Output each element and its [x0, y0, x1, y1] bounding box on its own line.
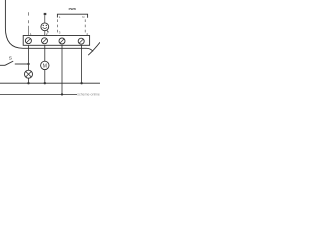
wire terminal 4 down to bus N	[81, 45, 83, 83]
switch S blade	[5, 61, 13, 65]
motor M1	[41, 61, 49, 69]
enclosure body outline left	[5, 0, 93, 51]
terminal 2	[42, 38, 48, 44]
node switch junction	[27, 63, 29, 65]
switch S right lead	[15, 63, 29, 65]
sensor bulb U1	[41, 23, 49, 33]
node terminal4-bus junction	[80, 82, 82, 84]
wire U1 to terminal 2	[44, 31, 46, 36]
wire from icon to U1	[44, 15, 46, 23]
svg-text:S: S	[9, 56, 12, 62]
svg-text:3: 3	[59, 30, 61, 34]
supply bracket	[57, 14, 87, 18]
wire terminal 2 down	[44, 45, 46, 61]
terminal block X1	[23, 36, 89, 46]
wire motor to bus N	[44, 70, 46, 84]
node terminal3-bottom junction	[61, 93, 63, 95]
bus N wire	[0, 82, 100, 84]
terminal 4	[78, 38, 84, 44]
node lamp-bus junction	[27, 82, 29, 84]
svg-text:N: N	[82, 15, 84, 19]
node motor-bus junction	[44, 82, 46, 84]
wire riser to terminal 1 (dashed)	[28, 12, 30, 35]
wire riser L to terminal 3 (dashed)	[57, 19, 59, 35]
wire terminal 3 down to bottom bus	[61, 45, 63, 94]
sensor icon above U1	[44, 13, 47, 15]
enclosure body outline right corner arc	[88, 42, 100, 55]
terminal 3	[59, 38, 65, 44]
terminal 1	[25, 38, 31, 44]
bus L bottom wire	[0, 93, 77, 95]
lamp E1	[25, 70, 33, 78]
svg-text:L: L	[59, 15, 61, 19]
switch S left lead	[0, 64, 5, 66]
svg-text:scheme-online: scheme-online	[77, 93, 100, 97]
svg-text:PWB: PWB	[69, 7, 77, 11]
wire terminal 1 down	[28, 45, 30, 70]
wire lamp to bus N	[28, 78, 30, 83]
svg-text:M: M	[43, 63, 48, 69]
wire riser N to terminal 4 (dashed)	[84, 19, 86, 35]
